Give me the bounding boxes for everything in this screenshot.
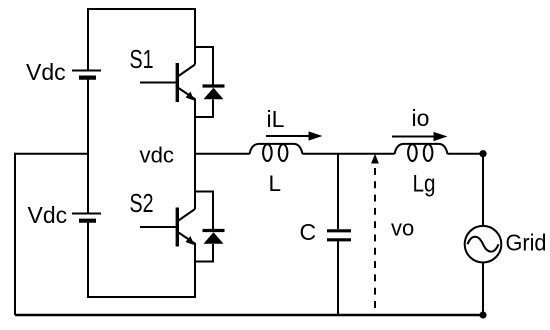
svg-text:Lg: Lg xyxy=(413,171,436,198)
svg-text:Vdc: Vdc xyxy=(28,202,68,228)
svg-text:L: L xyxy=(269,171,282,196)
svg-text:Vdc: Vdc xyxy=(26,59,66,85)
svg-text:io: io xyxy=(412,105,430,131)
svg-text:vo: vo xyxy=(391,215,414,240)
svg-text:Grid: Grid xyxy=(506,230,547,256)
svg-text:S1: S1 xyxy=(130,44,154,74)
svg-text:C: C xyxy=(300,219,317,245)
svg-text:vdc: vdc xyxy=(140,142,175,167)
svg-text:iL: iL xyxy=(267,106,285,132)
svg-text:S2: S2 xyxy=(130,188,154,218)
